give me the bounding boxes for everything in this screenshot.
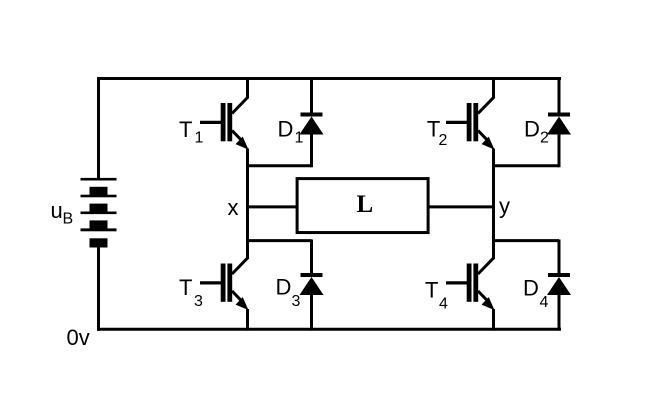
svg-text:3: 3 <box>292 293 301 310</box>
svg-text:0v: 0v <box>67 325 90 350</box>
svg-text:D: D <box>276 275 292 300</box>
svg-text:L: L <box>357 191 374 218</box>
svg-text:4: 4 <box>439 296 448 313</box>
svg-text:3: 3 <box>194 293 203 310</box>
svg-text:2: 2 <box>540 130 549 147</box>
svg-text:u: u <box>51 198 63 223</box>
svg-text:D: D <box>278 116 294 141</box>
svg-text:1: 1 <box>295 130 304 147</box>
svg-text:T: T <box>179 275 192 300</box>
svg-text:x: x <box>228 195 239 220</box>
svg-text:y: y <box>499 194 510 219</box>
svg-text:D: D <box>523 276 539 301</box>
svg-text:T: T <box>425 278 438 303</box>
svg-text:2: 2 <box>439 132 448 149</box>
svg-text:B: B <box>63 211 74 228</box>
svg-text:T: T <box>179 117 192 142</box>
svg-text:D: D <box>524 117 540 142</box>
svg-text:4: 4 <box>540 294 549 311</box>
svg-text:1: 1 <box>195 130 204 147</box>
